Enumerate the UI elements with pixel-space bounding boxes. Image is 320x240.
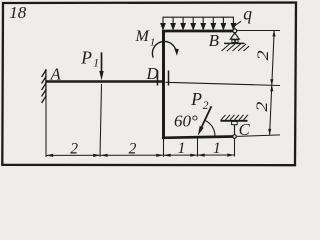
svg-text:2: 2 (254, 101, 271, 111)
ground line at B (224, 42, 245, 44)
leader line from q to beam end (234, 21, 241, 26)
svg-text:2: 2 (129, 140, 137, 157)
rollers under B triangle (232, 40, 235, 43)
force P2 arrow (points into beam at 60 deg) (200, 106, 212, 131)
distributed load q top line (163, 16, 235, 18)
extension line below P2 foot (197, 138, 199, 156)
ceiling line at C (221, 120, 248, 122)
extension line below A (45, 98, 47, 157)
figure border frame (2, 3, 296, 166)
right extension line at C level (237, 135, 280, 137)
svg-text:q: q (243, 4, 252, 24)
svg-text:D: D (146, 64, 159, 83)
svg-text:1: 1 (213, 140, 221, 157)
extension line below D member (163, 139, 165, 157)
extension line below C (234, 138, 236, 156)
moment M1 arc (152, 41, 175, 57)
svg-text:2: 2 (203, 100, 209, 112)
svg-text:2: 2 (255, 50, 272, 60)
svg-text:B: B (209, 31, 220, 50)
svg-text:1: 1 (150, 37, 156, 49)
60 degree angle arc (205, 120, 215, 136)
pin block at C ceiling (232, 121, 238, 124)
link rod at C (234, 125, 236, 135)
svg-text:2: 2 (70, 140, 78, 157)
distributed load arrows (161, 17, 236, 29)
ground hatching at B (222, 44, 250, 51)
right dimension line (270, 30, 275, 134)
slider joint ticks at D (158, 71, 169, 86)
svg-text:P: P (190, 89, 202, 109)
support triangle at B (230, 33, 239, 39)
moment M1 arrowhead (174, 48, 179, 55)
svg-text:60°: 60° (174, 112, 198, 131)
svg-text:P: P (80, 48, 92, 68)
pin circle at B (233, 29, 237, 33)
vertical frame member at D (162, 30, 165, 139)
svg-text:M: M (135, 28, 151, 45)
beam A-D (46, 80, 162, 83)
right extension line from B pin (237, 30, 280, 32)
bottom dim arrows (46, 154, 235, 158)
force P1 arrow (99, 52, 103, 80)
bottom dimension line (46, 154, 235, 156)
top beam (162, 30, 233, 33)
extension line below P1 (100, 84, 102, 157)
pin circle at C (233, 135, 237, 139)
right extension line at D level (166, 82, 281, 85)
svg-text:1: 1 (178, 140, 186, 157)
svg-text:18: 18 (9, 3, 27, 22)
bottom beam (162, 137, 233, 138)
ceiling hatching at C (221, 115, 249, 121)
right dim arrows (268, 31, 276, 135)
fixed support wall at A (42, 69, 47, 103)
svg-text:1: 1 (93, 58, 99, 70)
